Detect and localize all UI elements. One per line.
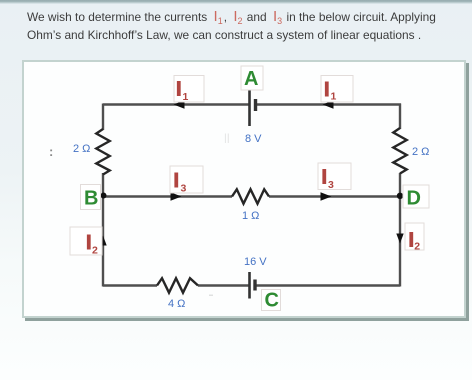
wire middle-left segment <box>103 195 232 197</box>
wire bottom-mid segment <box>198 284 249 286</box>
wire bottom-right segment <box>256 284 400 286</box>
svg-text:3: 3 <box>328 179 334 191</box>
arrow I2 right (points down) <box>396 234 403 244</box>
svg-text:2 Ω: 2 Ω <box>412 146 429 158</box>
wire left vertical upper <box>102 104 104 131</box>
wire top-left segment <box>103 103 249 105</box>
wire top-right segment <box>257 103 402 105</box>
battery C short plate <box>253 280 256 291</box>
svg-text:2: 2 <box>414 241 420 253</box>
label box I1 right <box>321 76 353 103</box>
svg-text:4 Ω: 4 Ω <box>168 298 185 310</box>
svg-text:B: B <box>84 188 98 210</box>
resistor 2ohm right <box>393 128 406 174</box>
svg-text:I: I <box>174 170 180 192</box>
svg-text:1 Ω: 1 Ω <box>242 210 259 222</box>
svg-text:2 Ω: 2 Ω <box>73 143 90 155</box>
label box node B <box>81 185 101 210</box>
battery A short plate <box>254 99 257 111</box>
intro text <box>27 8 457 44</box>
svg-text:3: 3 <box>181 183 187 195</box>
label box node C <box>262 290 281 311</box>
resistor 2ohm left <box>96 129 109 175</box>
label box I3 left <box>170 166 203 193</box>
svg-text:2: 2 <box>92 245 98 257</box>
wire bottom-left segment <box>103 284 157 286</box>
resistor 1ohm middle <box>232 189 269 203</box>
label box I1 left <box>174 76 204 103</box>
svg-text:C: C <box>265 290 279 312</box>
wire middle-right segment <box>269 195 400 197</box>
label box I3 right <box>318 163 351 190</box>
wire right vertical upper <box>399 104 401 130</box>
junction node B dot <box>101 193 107 199</box>
label box node A <box>241 66 263 90</box>
circuit panel <box>22 60 466 318</box>
svg-text:8 V: 8 V <box>245 133 262 145</box>
svg-text:ll: ll <box>224 131 230 146</box>
label box I2 right <box>405 223 424 250</box>
arrow I3 mid-left (points right) <box>171 192 182 201</box>
resistor 4ohm bottom <box>157 278 198 293</box>
junction node D dot <box>397 193 403 199</box>
svg-text:I: I <box>324 79 330 101</box>
svg-text:I: I <box>322 167 328 189</box>
svg-text:A: A <box>244 68 258 90</box>
svg-text:I: I <box>176 79 182 101</box>
top bar <box>0 0 472 4</box>
svg-text:1: 1 <box>183 91 189 103</box>
arrow I3 mid-right (points right) <box>321 192 332 201</box>
svg-text:I: I <box>86 232 92 254</box>
faint smudge near 16V wire <box>209 295 213 297</box>
arrow I1 top-right (points left) <box>323 100 334 109</box>
svg-text::: : <box>49 144 53 159</box>
battery C long plate <box>248 272 251 299</box>
svg-text:16 V: 16 V <box>244 256 267 268</box>
arrow I2 left (points up) <box>99 236 106 246</box>
arrow I1 top-left (points left) <box>174 100 185 109</box>
wire right vertical lower <box>399 173 401 287</box>
label box I2 left <box>70 227 102 255</box>
svg-text:D: D <box>407 188 421 210</box>
wire left vertical lower <box>102 173 104 287</box>
svg-text:I: I <box>409 230 415 252</box>
label box node D <box>403 185 429 208</box>
battery A long plate <box>248 90 251 126</box>
svg-text:1: 1 <box>331 91 337 103</box>
